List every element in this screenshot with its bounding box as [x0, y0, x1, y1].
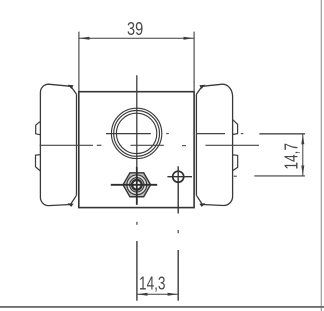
page rule bottom: [0, 306, 324, 308]
bleeder hex: [123, 173, 151, 197]
right boot outline: [202, 84, 233, 205]
bore horizontal crosshair: [106, 133, 151, 135]
bleeder vertical crosshair bold: [136, 167, 138, 205]
svg-text:14,7: 14,7: [281, 143, 302, 170]
dim 14,7 line: [302, 134, 304, 175]
chain line y=133.6 right: [166, 133, 169, 135]
dim 39 extension right: [193, 32, 195, 91]
vertical centerline bore/bleeder: [136, 75, 138, 205]
dim 39 extension left: [78, 32, 80, 91]
right boot inner edge: [195, 94, 197, 195]
chain dot right of inlet: [234, 175, 237, 177]
chain dot below bleeder: [136, 222, 138, 225]
bleeder horizontal crosshair: [111, 184, 157, 186]
dim 14,7 extension bottom: [254, 175, 305, 177]
bore circle middle: [114, 110, 160, 156]
svg-text:39: 39: [127, 18, 143, 39]
dim 14,3 line: [137, 293, 178, 295]
dim 39 line: [79, 37, 194, 39]
bore circle outer: [111, 108, 161, 158]
inlet crosshair vertical: [177, 166, 179, 213]
left boot inner edge: [76, 94, 78, 195]
dim 39 arrow right: [184, 37, 195, 40]
left boot bottom lip: [71, 195, 77, 204]
dim 14,3 extension right: [177, 250, 179, 301]
right boot top lip: [196, 86, 202, 94]
dim 14,3 arrow right: [168, 293, 179, 296]
right boot lower tab: [233, 155, 238, 171]
inlet crosshair horizontal: [167, 176, 192, 178]
left boot top lip: [71, 86, 77, 94]
dim 14,7 extension top: [259, 133, 305, 135]
left boot upper tab: [36, 121, 41, 135]
right boot upper tab: [233, 120, 238, 135]
main axis chain y=145.3: [40, 144, 93, 146]
left boot outline: [40, 84, 70, 205]
dim 39 arrow left: [79, 37, 90, 40]
bleeder circle outer: [127, 175, 147, 195]
svg-text:14,3: 14,3: [139, 272, 166, 293]
page rule right: [320, 0, 322, 311]
cylinder body: [79, 92, 194, 208]
dim 14,7 arrow bottom: [301, 166, 304, 176]
bleeder circle inner bold: [132, 180, 142, 190]
inlet port circle: [173, 171, 184, 182]
dim 14,3 arrow left: [137, 293, 148, 296]
left boot lower tab: [36, 155, 41, 171]
right boot bottom lip: [196, 195, 202, 204]
dim 14,7 arrow top: [301, 134, 304, 144]
chain dot below inlet: [177, 230, 179, 233]
dim 14,3 extension left: [136, 241, 138, 301]
bleeder circle middle: [130, 178, 144, 192]
bore circle inner: [116, 113, 156, 153]
